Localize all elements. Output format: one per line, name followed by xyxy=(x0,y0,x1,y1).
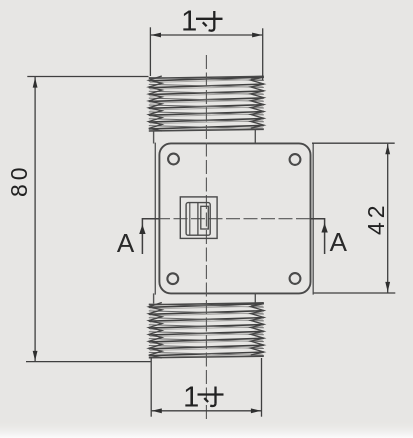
svg-text:A: A xyxy=(330,227,348,257)
svg-text:80: 80 xyxy=(6,163,32,197)
svg-text:A: A xyxy=(117,228,135,258)
svg-text:1: 1 xyxy=(181,6,197,38)
svg-text:1: 1 xyxy=(183,382,199,414)
svg-text:42: 42 xyxy=(363,201,389,235)
